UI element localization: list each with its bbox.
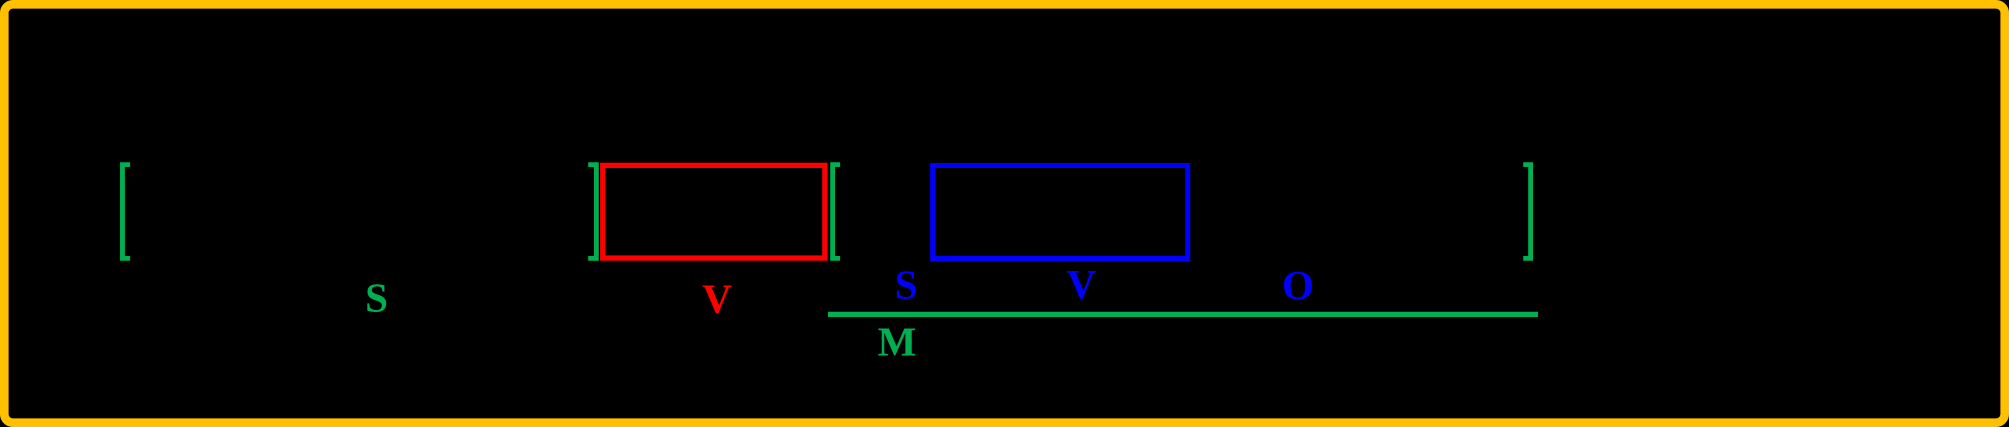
bracket open green mid (833, 165, 841, 259)
box blue clause (933, 166, 1188, 259)
svg-text:S: S (365, 275, 388, 321)
underline green modifier (828, 312, 1538, 317)
svg-text:M: M (878, 319, 917, 365)
bracket close green mid (588, 165, 596, 259)
bracket close green right (1523, 165, 1530, 259)
box red verb (603, 165, 825, 258)
svg-text:S: S (895, 262, 918, 308)
svg-text:O: O (1282, 262, 1314, 308)
svg-text:V: V (702, 276, 732, 322)
bracket open green left (122, 165, 130, 259)
svg-text:V: V (1066, 261, 1096, 307)
